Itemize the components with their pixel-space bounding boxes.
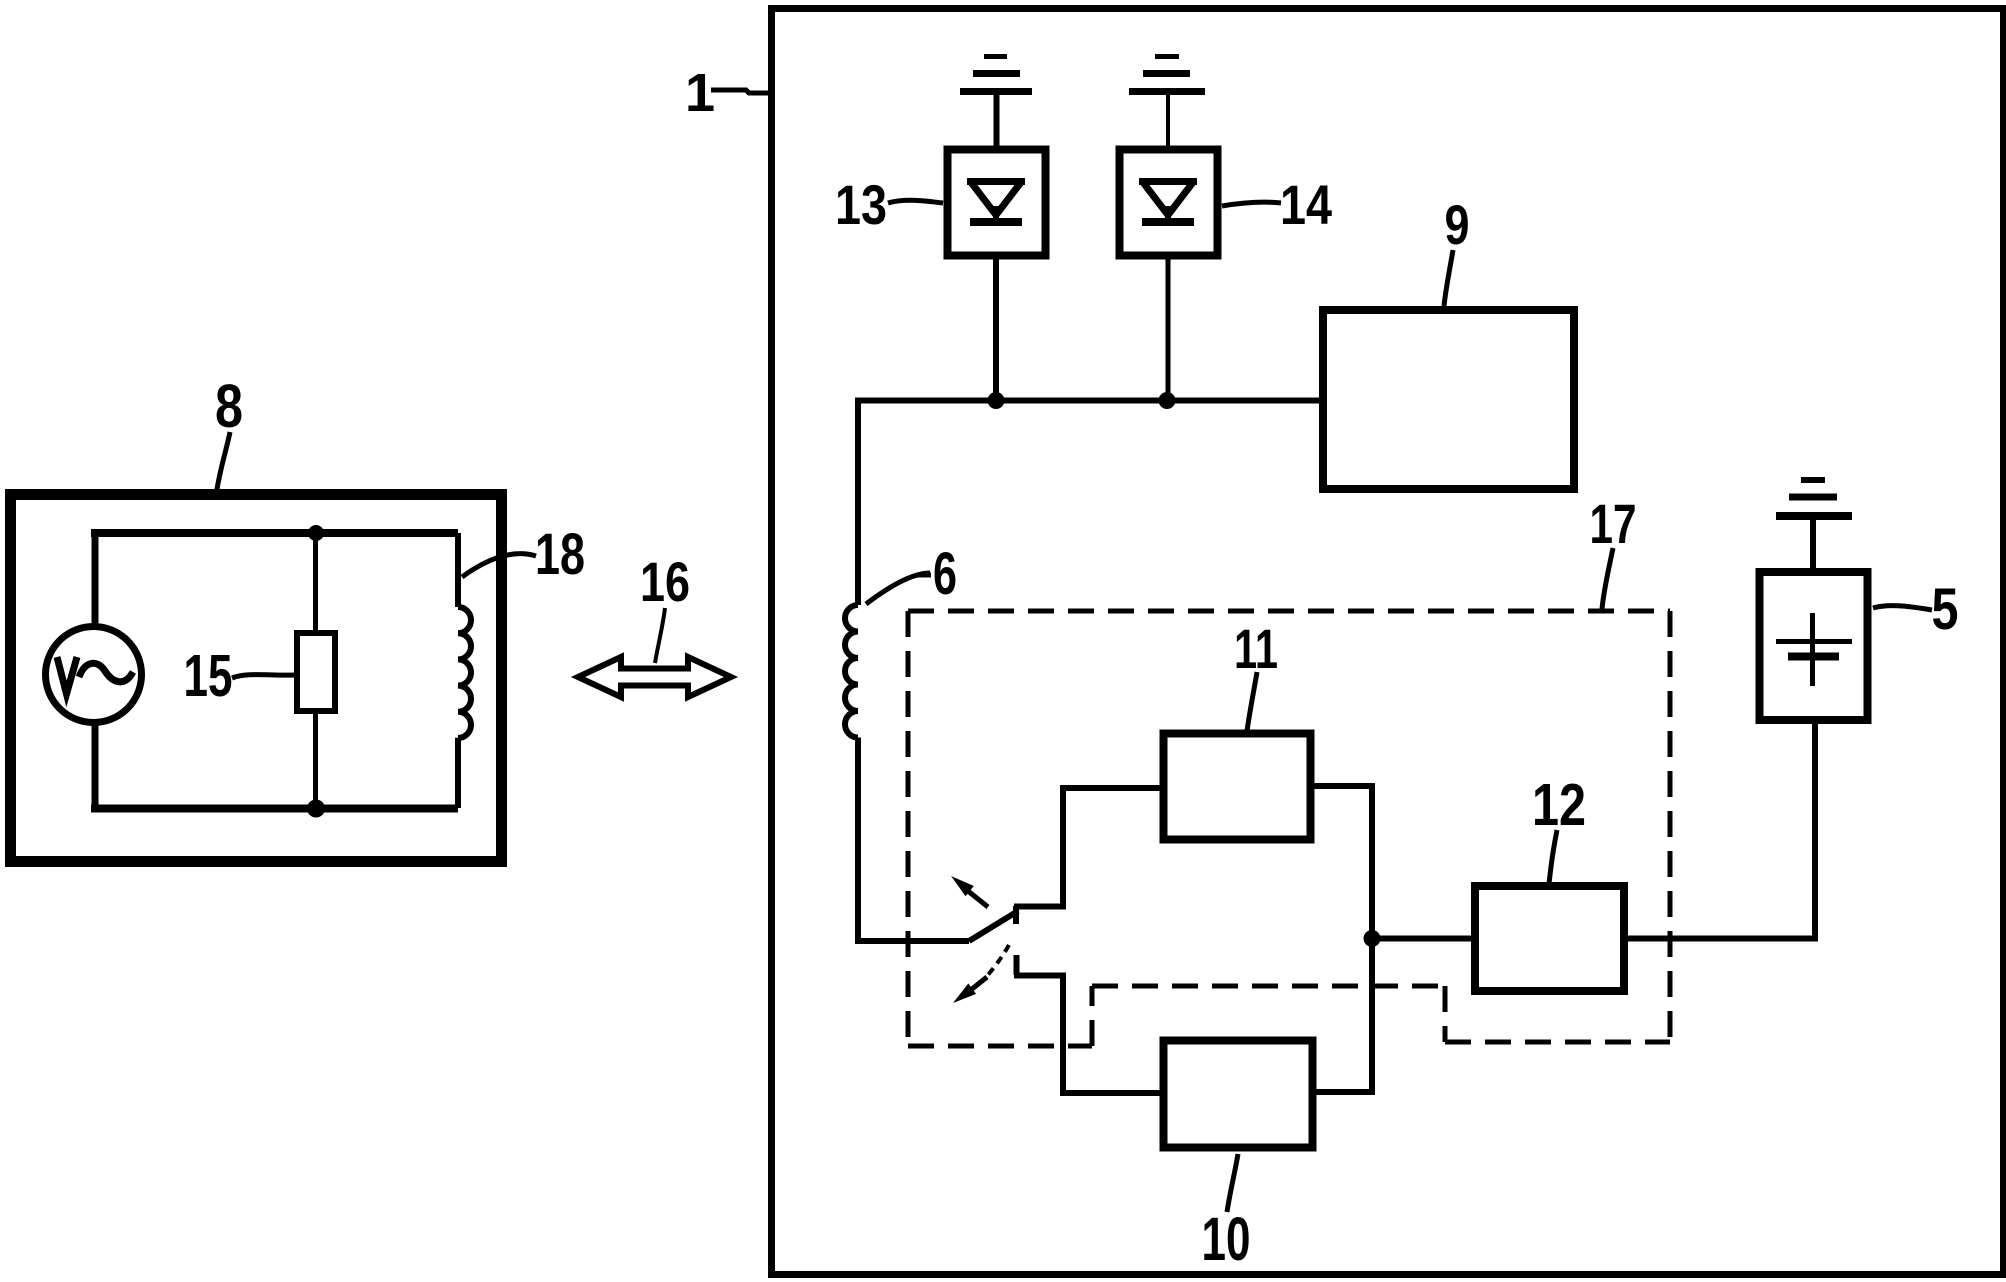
- wire from top wire down to resistor 15: [313, 533, 318, 634]
- junction dot at node before box 12: [1364, 930, 1381, 947]
- svg-text:10: 10: [1202, 1205, 1251, 1273]
- ground G2 above box 14: [1129, 57, 1205, 151]
- diode box 14: [1120, 150, 1218, 256]
- leader for label 5: [1873, 606, 1932, 610]
- leader for label 15: [232, 675, 295, 678]
- wire from box 14 down to bus: [1166, 255, 1171, 403]
- leader for label 12: [1549, 830, 1557, 884]
- switch motion dashed arc: [986, 945, 1009, 977]
- wire from box 10 right up to junction: [1312, 938, 1372, 1092]
- main device box 1: [772, 9, 2004, 1275]
- svg-text:11: 11: [1234, 617, 1278, 680]
- resistor 15: [297, 633, 335, 711]
- coupling arrow 16: [578, 657, 731, 697]
- battery cell symbol: [1776, 613, 1852, 686]
- voltage source V circle: [46, 627, 142, 723]
- leader for label 13: [888, 200, 943, 203]
- junction dot at box13 wire: [988, 392, 1005, 409]
- switch motion arrow up: [951, 876, 988, 907]
- box 12: [1475, 886, 1624, 991]
- wire from coil 6 down to switch: [855, 738, 861, 942]
- wire from box 13 down to bus: [993, 255, 999, 403]
- transponder loop bottom wire: [91, 805, 458, 813]
- svg-text:9: 9: [1445, 193, 1470, 256]
- junction dot at box14 wire: [1159, 392, 1176, 409]
- box 10: [1164, 1041, 1313, 1148]
- wire from coil to switch blade: [855, 938, 969, 944]
- switch lower throw contact: [1014, 955, 1066, 976]
- wire from junction to box 12: [1372, 936, 1475, 942]
- svg-text:13: 13: [835, 173, 887, 236]
- bus wire to box 9: [858, 398, 1323, 404]
- leader for label 14: [1222, 202, 1281, 206]
- leader for label 8: [216, 432, 230, 496]
- wire from box 12 to battery 5: [1624, 722, 1815, 939]
- wire from lower contact down and right to box 10: [1063, 975, 1163, 1093]
- sine wave in source: [79, 663, 133, 682]
- transponder box 8: [11, 495, 502, 862]
- V letter in source: [57, 657, 77, 694]
- leader for label 16: [655, 608, 665, 663]
- junction dot top of resistor branch: [308, 525, 324, 541]
- svg-text:8: 8: [215, 372, 243, 440]
- svg-text:6: 6: [933, 540, 957, 607]
- battery box 5: [1760, 572, 1868, 720]
- svg-text:14: 14: [1280, 173, 1332, 236]
- wire from upper contact up and right to box 11: [1063, 788, 1163, 906]
- wire from bus down to coil 6: [855, 398, 861, 606]
- svg-text:1: 1: [685, 63, 715, 123]
- svg-text:5: 5: [1932, 577, 1959, 642]
- ground G3 above battery: [1776, 480, 1852, 570]
- leader for label 18: [462, 554, 536, 577]
- wire from top wire down to coil 18: [455, 533, 461, 607]
- wire from box 11 right to junction: [1311, 786, 1372, 938]
- diode symbol in box 13: [967, 181, 1025, 222]
- junction dot bottom of resistor branch: [307, 800, 325, 818]
- svg-text:18: 18: [535, 522, 585, 587]
- leader for label 10: [1227, 1154, 1238, 1212]
- leader for label 6: [866, 573, 931, 604]
- coil 18: [458, 607, 471, 738]
- leader for label 11: [1247, 672, 1257, 731]
- diode symbol in box 14: [1139, 181, 1197, 222]
- wire from coil 18 down to bottom wire: [455, 738, 461, 808]
- svg-text:12: 12: [1532, 772, 1586, 838]
- svg-text:15: 15: [184, 643, 233, 709]
- leader for label 1: [711, 90, 770, 93]
- leader for label 9: [1444, 250, 1453, 306]
- diode box 13: [948, 150, 1046, 256]
- box 9: [1323, 310, 1574, 489]
- wire from top wire down to source: [92, 533, 99, 625]
- coil 6: [845, 605, 858, 738]
- svg-text:16: 16: [640, 550, 690, 613]
- leader for label 17: [1602, 548, 1613, 609]
- wire from source down to bottom wire: [92, 724, 99, 808]
- switch motion arrow down: [953, 977, 987, 1003]
- transponder loop top wire: [91, 529, 458, 537]
- svg-text:17: 17: [1590, 492, 1637, 555]
- box 11: [1164, 734, 1311, 840]
- switch upper throw contact: [1014, 904, 1066, 910]
- wire from resistor 15 down to bottom wire: [313, 711, 318, 808]
- ground G1 above box 13: [960, 57, 1032, 151]
- dashed supervision unit box 17: [908, 611, 1670, 1046]
- switch blade: [969, 906, 1018, 941]
